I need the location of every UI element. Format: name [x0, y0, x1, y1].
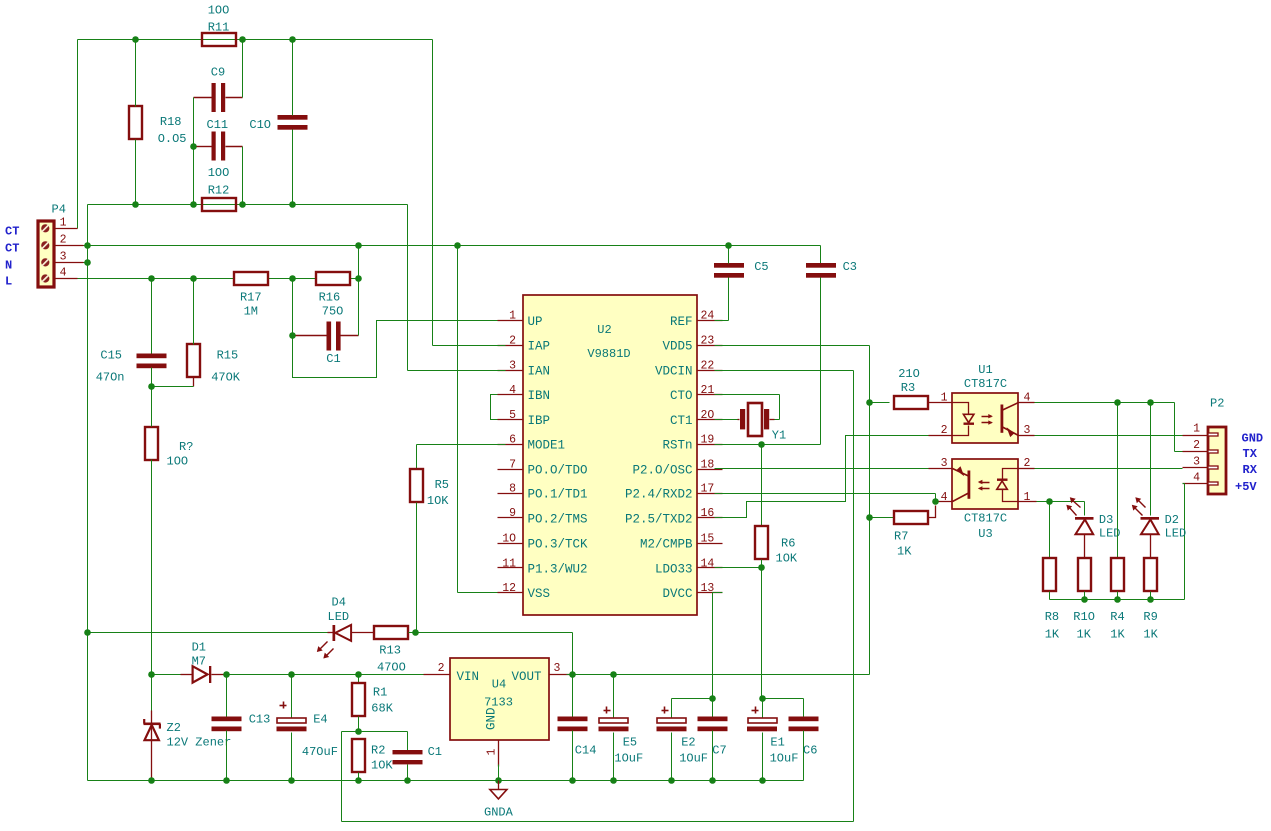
U2 pin 17 P2.4/RXD2 [625, 483, 723, 502]
svg-text:2O: 2O [701, 409, 715, 422]
optocoupler U1 CT817C body [952, 363, 1018, 443]
P4 pin 2 stub [54, 234, 84, 247]
svg-text:1OuF: 1OuF [679, 752, 708, 766]
svg-text:R?: R? [179, 440, 193, 454]
wire IAN pin3 (from R12 net) [408, 205, 506, 371]
junction C9C11 bottom [190, 201, 197, 208]
svg-text:PO.2/TMS: PO.2/TMS [528, 512, 588, 526]
svg-text:VDCIN: VDCIN [655, 365, 693, 379]
P4 screw pin 3 [41, 258, 49, 266]
svg-text:1K: 1K [1143, 628, 1158, 642]
resistor R17 [234, 272, 268, 319]
svg-text:CT817C: CT817C [964, 377, 1007, 391]
U3 pin2 wire to P2 pin3 [1019, 468, 1183, 470]
junction C1 left [289, 332, 296, 339]
svg-text:IAP: IAP [528, 340, 551, 354]
svg-text:2: 2 [60, 234, 67, 247]
svg-text:19: 19 [701, 434, 715, 447]
capacitor C1 filter [393, 732, 443, 781]
resistor R11 [202, 4, 236, 47]
junction D4 left [84, 629, 91, 636]
capacitor C9 [194, 66, 243, 113]
connector P2 [1208, 397, 1226, 495]
junction GND U4 [495, 777, 502, 784]
svg-text:R9: R9 [1143, 610, 1157, 624]
junction C10 bottom [289, 201, 296, 208]
svg-text:1OK: 1OK [371, 759, 393, 773]
capacitor E5 10uF [599, 675, 644, 781]
junction R17 R16 [289, 275, 296, 282]
wire D2 column [1150, 403, 1152, 516]
svg-text:R7: R7 [894, 530, 908, 544]
P2 pin 2 tab [1208, 450, 1218, 453]
diode D1 M7 [181, 641, 225, 684]
svg-text:R13: R13 [379, 644, 401, 658]
svg-text:M7: M7 [192, 655, 206, 669]
svg-text:4: 4 [509, 384, 516, 397]
wire C1 loop [293, 279, 506, 378]
junction Z2 bottom [148, 777, 155, 784]
svg-text:GNDA: GNDA [484, 806, 514, 820]
junction VDD5 R7 [866, 514, 873, 521]
optocoupler U3 CT817C body [952, 459, 1018, 541]
svg-text:E1: E1 [770, 736, 784, 750]
svg-text:+5V: +5V [1235, 480, 1257, 494]
wire R11 top net [78, 40, 433, 346]
U2 pin 1 UP [498, 310, 543, 329]
svg-text:1K: 1K [1045, 628, 1060, 642]
svg-text:11: 11 [502, 557, 516, 570]
svg-text:U3: U3 [978, 527, 992, 541]
svg-text:4: 4 [1193, 472, 1200, 485]
wire C9 left down [193, 98, 195, 205]
U2 pin 12 VSS [498, 582, 551, 601]
junction C14 top [569, 671, 576, 678]
svg-text:VOUT: VOUT [511, 670, 542, 684]
label N pin3 [5, 258, 12, 272]
svg-text:VIN: VIN [457, 670, 480, 684]
resistor R? [145, 387, 193, 675]
junction R2 bottom [355, 777, 362, 784]
wire VDCIN net [342, 371, 854, 822]
svg-text:D1: D1 [192, 641, 206, 655]
junction R18 top [132, 36, 139, 43]
wire C9 right to top [242, 40, 244, 98]
U2 pin 14 LDO33 [655, 557, 723, 576]
junction C5 top [725, 242, 732, 249]
svg-text:14: 14 [701, 557, 715, 570]
U1 pin2 stub [929, 435, 953, 437]
svg-text:3: 3 [1193, 455, 1200, 468]
svg-text:R18: R18 [160, 115, 182, 129]
wire IBN-IBP loop [491, 395, 498, 420]
junction D1 left [148, 671, 155, 678]
svg-text:N: N [5, 258, 12, 272]
wire LDO33 pin14 [715, 567, 762, 569]
svg-text:1O: 1O [502, 533, 516, 546]
U2 pin 13 DVCC [662, 582, 722, 601]
svg-text:47OK: 47OK [211, 371, 241, 385]
P2 pin 1 stub [1183, 423, 1209, 436]
svg-text:1K: 1K [1077, 628, 1092, 642]
wire E2 C7 link [672, 699, 713, 719]
junction C15 R15 bottom [148, 383, 155, 390]
svg-text:C1: C1 [326, 352, 340, 366]
svg-text:6: 6 [509, 434, 516, 447]
resistor R6 [755, 445, 798, 568]
svg-text:23: 23 [701, 335, 715, 348]
svg-text:O.O5: O.O5 [158, 132, 187, 146]
U2 pin 20 CT1 [670, 409, 723, 428]
svg-text:1M: 1M [244, 305, 258, 319]
U2 pin 23 VDD5 [662, 335, 722, 354]
label +5V [1235, 480, 1257, 494]
svg-text:C13: C13 [249, 713, 271, 727]
wire RSTn row [715, 444, 821, 446]
svg-text:LDO33: LDO33 [655, 562, 693, 576]
wire U3 pin1 to D3 [1050, 502, 1085, 516]
svg-text:U1: U1 [978, 363, 992, 377]
capacitor E2 10uF [657, 707, 709, 781]
label TX [1243, 447, 1258, 461]
svg-text:4: 4 [60, 267, 67, 280]
svg-text:68K: 68K [371, 702, 393, 716]
P4 screw pin 2 [41, 241, 49, 249]
junction R4 top [1114, 399, 1121, 406]
U3 pin3 stub [929, 468, 953, 470]
junction E4 top [288, 671, 295, 678]
resistor R15 [152, 279, 241, 387]
junction C11 left [190, 143, 197, 150]
U2 pin 22 VDCIN [655, 359, 723, 378]
P4 screw pin 1 [41, 224, 49, 232]
svg-text:D4: D4 [332, 596, 346, 610]
U2 pin 21 CTO [670, 384, 723, 403]
junction E2 bottom [668, 777, 675, 784]
svg-text:C3: C3 [843, 260, 857, 274]
svg-text:RX: RX [1243, 463, 1258, 477]
junction C10 top [289, 36, 296, 43]
P4 pin 3 stub [54, 251, 84, 264]
svg-text:R4: R4 [1110, 610, 1124, 624]
wire CT0 pin21 [715, 395, 780, 420]
P2 pin 3 tab [1208, 466, 1218, 469]
svg-text:75O: 75O [322, 305, 344, 319]
U2 pin 11 P1.3/WU2 [498, 557, 588, 576]
svg-text:E5: E5 [623, 736, 637, 750]
wire +5V rail LEDs [1050, 599, 1185, 601]
junction E4 bottom [288, 777, 295, 784]
svg-text:UP: UP [528, 315, 543, 329]
crystal Y1 [738, 403, 787, 443]
zener Z2 12V [144, 675, 232, 781]
junction LDO33 R6 [758, 564, 765, 571]
wire R1R2 tap [342, 731, 408, 733]
svg-text:R12: R12 [208, 184, 230, 198]
junction R1 R2 tap [355, 728, 362, 735]
svg-text:TX: TX [1243, 447, 1258, 461]
U1 pin numbers [941, 391, 1031, 437]
svg-text:C11: C11 [207, 118, 229, 132]
label CT pin2 [5, 241, 19, 255]
svg-text:R15: R15 [217, 349, 239, 363]
svg-text:1: 1 [486, 749, 499, 756]
junction CT R16 riser [355, 242, 362, 249]
U2 pin 16 P2.5/TXD2 [625, 507, 723, 526]
junction RSTn R6 [758, 441, 765, 448]
svg-text:1: 1 [1193, 423, 1200, 436]
wire C1 right riser [358, 279, 360, 336]
svg-text:R1O: R1O [1073, 610, 1095, 624]
svg-text:IBN: IBN [528, 389, 551, 403]
junction C11 right bottom [239, 201, 246, 208]
junction C7 top [709, 695, 716, 702]
svg-text:RSTn: RSTn [662, 439, 692, 453]
svg-text:1K: 1K [897, 545, 912, 559]
label GND [1242, 432, 1264, 446]
capacitor E4 470uF [277, 675, 338, 781]
junction C14 bottom [569, 777, 576, 784]
svg-text:1: 1 [941, 391, 948, 404]
capacitor C3 [806, 260, 857, 445]
svg-text:47OO: 47OO [377, 661, 406, 675]
U4 pin1 GND stub [486, 741, 499, 767]
LED D2 arrows [1132, 497, 1146, 515]
wire CT net [84, 246, 821, 264]
wire P2 pin4 +5V drop [1183, 484, 1185, 600]
capacitor C14 [558, 675, 597, 781]
wire R4 column [1117, 403, 1119, 559]
P2 pin 3 stub [1183, 455, 1209, 468]
svg-text:P4: P4 [52, 203, 66, 217]
U2 pin 19 RSTn [662, 434, 722, 453]
svg-text:R16: R16 [319, 291, 341, 305]
resistor R5 [410, 469, 449, 633]
svg-text:1OO: 1OO [208, 4, 230, 18]
junction R1 top [355, 671, 362, 678]
resistor R8 [1043, 502, 1060, 642]
wire R12 bottom net [88, 205, 408, 246]
wire E1 C6 link [763, 699, 804, 719]
resistor R10 [1073, 558, 1095, 642]
svg-text:P2: P2 [1210, 397, 1224, 411]
svg-text:47OuF: 47OuF [302, 745, 338, 759]
junction D2 top [1147, 399, 1154, 406]
svg-text:M2/CMPB: M2/CMPB [640, 538, 693, 552]
resistor R4 [1110, 558, 1125, 642]
svg-text:LED: LED [328, 610, 350, 624]
U1 pin3 wire to P2 pin1 [1019, 435, 1183, 437]
U2 pin 8 P0.1/TD1 [498, 483, 588, 502]
wire R13 to VOUT rail [416, 633, 573, 675]
svg-text:2: 2 [509, 335, 516, 348]
junction C15 top [148, 275, 155, 282]
U4 pin3 VOUT stub [549, 662, 575, 675]
wire GND pin drop [498, 765, 500, 781]
svg-text:21O: 21O [898, 367, 920, 381]
svg-text:16: 16 [701, 507, 715, 520]
U2 pin 3 IAN [498, 359, 551, 378]
svg-text:IAN: IAN [528, 365, 551, 379]
capacitor C1 [296, 322, 359, 367]
svg-text:1OuF: 1OuF [614, 752, 643, 766]
svg-text:P2.5/TXD2: P2.5/TXD2 [625, 512, 693, 526]
wire VOUT rail [567, 674, 870, 676]
resistor R9 [1143, 558, 1158, 642]
resistor R12 [202, 166, 236, 211]
U4 pin2 VIN stub [424, 662, 450, 675]
svg-text:V9881D: V9881D [587, 347, 630, 361]
svg-text:22: 22 [701, 359, 715, 372]
svg-text:24: 24 [701, 310, 715, 323]
U3 pin numbers [941, 457, 1031, 504]
U1 coupling arrows [982, 414, 993, 425]
junction C13 top [223, 671, 230, 678]
U2 pin 2 IAP [498, 335, 551, 354]
svg-text:7: 7 [509, 458, 516, 471]
U3 coupling arrows [978, 480, 990, 491]
junction VDD5 R3 [866, 399, 873, 406]
connector P4 [38, 203, 66, 288]
svg-text:8: 8 [509, 483, 516, 496]
junction U3 pin4 R7 [932, 498, 939, 505]
wire VSS riser [458, 246, 506, 593]
junction E1 bottom [759, 777, 766, 784]
junction E1 top [759, 695, 766, 702]
P4 screw pin 4 [41, 274, 49, 282]
U2 pin 4 IBN [498, 384, 551, 403]
capacitor E1 10uF [747, 707, 798, 781]
svg-text:15: 15 [701, 533, 715, 546]
label L pin4 [5, 275, 12, 289]
junction R15 top [190, 275, 197, 282]
svg-text:CT: CT [5, 241, 19, 255]
LED D4 arrows [317, 642, 334, 659]
svg-text:1OuF: 1OuF [770, 752, 799, 766]
wire LDO33 down [761, 568, 763, 699]
svg-text:PO.1/TD1: PO.1/TD1 [528, 488, 588, 502]
svg-text:MODE1: MODE1 [528, 439, 566, 453]
svg-text:GND: GND [485, 707, 499, 730]
svg-text:R1: R1 [373, 686, 387, 700]
svg-text:1OK: 1OK [776, 552, 798, 566]
junction C1 bottom [404, 777, 411, 784]
svg-text:1: 1 [509, 310, 516, 323]
svg-text:1OK: 1OK [427, 494, 449, 508]
svg-text:R3: R3 [901, 381, 915, 395]
U2 pin 10 P0.3/TCK [498, 533, 589, 552]
wire RXD2 pin17 to U3 pin4 [715, 494, 936, 502]
junction R4 bottom [1114, 596, 1121, 603]
svg-text:CT: CT [5, 224, 19, 238]
svg-text:C1: C1 [428, 745, 442, 759]
svg-text:C5: C5 [754, 260, 768, 274]
svg-text:U2: U2 [597, 323, 611, 337]
svg-text:18: 18 [701, 458, 715, 471]
U3 internal LED [997, 469, 1019, 502]
resistor R3 [870, 367, 953, 409]
junction R13 R5 [412, 629, 419, 636]
capacitor C6 [789, 699, 819, 781]
junction N pin3 [84, 259, 91, 266]
svg-text:U4: U4 [492, 678, 506, 692]
ground GNDA [484, 781, 514, 820]
svg-text:3: 3 [509, 359, 516, 372]
junction R10 bottom [1081, 596, 1088, 603]
svg-text:R2: R2 [371, 744, 385, 758]
wire D4 net [88, 632, 328, 634]
capacitor C5 [714, 246, 769, 321]
svg-text:D2: D2 [1165, 513, 1179, 527]
capacitor C7 [698, 699, 728, 781]
P2 pin 1 tab [1208, 433, 1218, 436]
resistor R2 10K [352, 739, 393, 781]
svg-text:E4: E4 [313, 713, 327, 727]
U3 internal transistor [953, 466, 971, 501]
svg-text:P2.4/RXD2: P2.4/RXD2 [625, 488, 693, 502]
svg-text:47On: 47On [96, 371, 125, 385]
svg-text:3: 3 [60, 251, 67, 264]
svg-text:VSS: VSS [528, 587, 551, 601]
wire CT1 pin20 [715, 419, 738, 421]
svg-text:IBP: IBP [528, 414, 551, 428]
svg-text:7133: 7133 [484, 696, 513, 710]
wire L net [78, 246, 359, 279]
U2 pin 9 P0.2/TMS [498, 507, 588, 526]
svg-text:Y1: Y1 [772, 429, 786, 443]
svg-text:R11: R11 [208, 21, 230, 35]
svg-text:5: 5 [509, 409, 516, 422]
svg-text:1OO: 1OO [208, 166, 230, 180]
LED D3 arrows [1066, 497, 1080, 515]
svg-text:R8: R8 [1045, 610, 1059, 624]
junction E5 top [610, 671, 617, 678]
svg-text:C15: C15 [100, 349, 122, 363]
svg-text:21: 21 [701, 384, 715, 397]
wire DVCC pin13 down [713, 593, 723, 699]
junction C7 bottom [709, 777, 716, 784]
U2 pin 15 M2/CMPB [640, 533, 723, 552]
wire GND rail [88, 633, 804, 781]
svg-text:DVCC: DVCC [662, 587, 692, 601]
svg-text:LED: LED [1165, 527, 1187, 541]
capacitor C11 [197, 118, 243, 161]
wire MODE1 pin6 [417, 445, 506, 470]
svg-text:R17: R17 [240, 291, 262, 305]
svg-text:C14: C14 [575, 744, 597, 758]
svg-text:CT817C: CT817C [964, 512, 1007, 526]
svg-text:P1.3/WU2: P1.3/WU2 [528, 562, 588, 576]
svg-text:P2.O/OSC: P2.O/OSC [632, 464, 692, 478]
U2 pin 24 REF [670, 310, 723, 329]
capacitor C10 [249, 40, 307, 205]
wire UP pin1 (from R11 net) [433, 345, 506, 347]
wire C11 right down [242, 147, 244, 205]
junction R16 C1 [355, 275, 362, 282]
U2 pin 7 P0.0/TDO [498, 458, 588, 477]
junction CT VSS riser [454, 242, 461, 249]
wire OSC pin18 to U3 pin3 [715, 468, 937, 470]
svg-text:E2: E2 [681, 736, 695, 750]
wire U1 pin4 to P2 pin2 TX [1175, 403, 1183, 452]
svg-text:PO.O/TDO: PO.O/TDO [528, 464, 588, 478]
U3 pin4 stub [936, 501, 953, 503]
svg-text:GND: GND [1242, 432, 1264, 446]
svg-text:1K: 1K [1110, 628, 1125, 642]
svg-text:12V Zener: 12V Zener [167, 736, 232, 750]
capacitor C13 [212, 675, 271, 781]
svg-text:CT1: CT1 [670, 414, 693, 428]
